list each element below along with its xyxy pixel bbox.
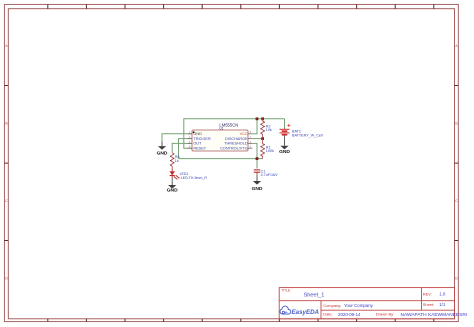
svg-text:GND: GND xyxy=(167,188,178,194)
label C1 reference and value 4.7uF/16V xyxy=(261,169,279,177)
label R6 reference and value 1k xyxy=(175,155,180,163)
wire DISCHARGE pin 7 to R2/R1 node xyxy=(252,138,262,140)
svg-text:D: D xyxy=(5,277,8,281)
zone letters left (A-D) xyxy=(5,44,8,281)
svg-text:TITLE:: TITLE: xyxy=(281,289,291,293)
capacitor C1 xyxy=(254,170,260,177)
svg-text:C: C xyxy=(5,199,8,203)
pin stubs pins 1-4 left xyxy=(188,134,192,148)
ground symbol below LED1 xyxy=(167,181,178,193)
svg-text:Your Company: Your Company xyxy=(344,303,374,308)
svg-text:TRIGGER: TRIGGER xyxy=(193,137,211,141)
wire OUT pin 3 to resistor R6 xyxy=(172,143,192,152)
pin stubs pins 5-8 right xyxy=(248,134,252,148)
svg-text:1k: 1k xyxy=(175,159,179,163)
svg-text:OUT: OUT xyxy=(193,142,202,146)
ground symbol below BAT1 xyxy=(279,141,290,156)
svg-text:4.7uF/16V: 4.7uF/16V xyxy=(261,173,279,177)
LED LED1 xyxy=(170,169,181,182)
svg-text:10k: 10k xyxy=(266,128,272,132)
svg-text:D: D xyxy=(455,277,458,281)
wire TRIGGER pin 2 to bottom net xyxy=(179,139,193,159)
svg-text:Date:: Date: xyxy=(323,312,333,317)
svg-text:EasyEDA: EasyEDA xyxy=(292,309,320,316)
svg-text:DISCHARGE: DISCHARGE xyxy=(225,137,248,141)
svg-text:LED-TH-5mm_R: LED-TH-5mm_R xyxy=(181,176,208,180)
pin names VCC DISCHARGE THRESHOLD CONTROL/VTG xyxy=(220,132,248,150)
label R2 reference and value 10k xyxy=(266,124,272,132)
resistor R6 xyxy=(171,153,174,169)
wire GND pin 1 to ground xyxy=(162,134,192,142)
svg-text:RESET: RESET xyxy=(193,146,206,150)
svg-text:GND: GND xyxy=(279,149,290,155)
pin 1 marker dot xyxy=(193,131,195,133)
frame zone ticks right edge xyxy=(455,86,459,241)
ground symbol at GND pin 1 xyxy=(157,142,168,157)
svg-text:Company:: Company: xyxy=(323,303,341,308)
svg-text:BATTERY_W_Cell: BATTERY_W_Cell xyxy=(292,134,323,138)
svg-text:2020-09-14: 2020-09-14 xyxy=(338,312,361,317)
junction at bottom net C1 tap xyxy=(256,157,259,160)
ground symbol below C1 xyxy=(252,176,263,192)
frame zone ticks top edge xyxy=(48,4,434,8)
wire RESET pin 4 to VCC top rail xyxy=(184,119,285,148)
EasyEDA logo xyxy=(280,306,319,316)
svg-text:CONTROL/VTG: CONTROL/VTG xyxy=(220,146,247,150)
wire THRESHOLD pin 6 down to bottom net xyxy=(252,143,257,158)
zone letters right (A-D) xyxy=(455,44,458,281)
battery BAT1 xyxy=(280,119,291,141)
svg-text:C: C xyxy=(455,199,458,203)
title block outline xyxy=(279,288,454,319)
svg-text:Drawn By:: Drawn By: xyxy=(376,312,394,317)
pin names GND TRIGGER OUT RESET xyxy=(193,132,211,150)
svg-text:1/1: 1/1 xyxy=(439,302,446,307)
junction on top rail at R2 xyxy=(261,117,264,120)
label LED1 reference and part name xyxy=(180,172,208,180)
svg-text:+: + xyxy=(287,122,291,129)
wire bottom net TRIGGER/THRESHOLD/C1/R1 xyxy=(179,158,263,160)
label R1 reference and value 100k xyxy=(266,145,274,153)
frame zone ticks left edge xyxy=(4,86,8,241)
svg-text:Sheet_1: Sheet_1 xyxy=(304,292,325,298)
svg-text:1.0: 1.0 xyxy=(439,292,446,297)
svg-text:GND: GND xyxy=(252,186,263,192)
svg-text:NAWAPATH KAEWMANEESRI: NAWAPATH KAEWMANEESRI xyxy=(401,312,468,318)
svg-text:GND: GND xyxy=(157,150,168,156)
svg-text:VCC: VCC xyxy=(240,132,248,136)
svg-text:GND: GND xyxy=(193,132,202,136)
wire bottom net to capacitor C1 xyxy=(256,159,258,169)
resistor R2 xyxy=(261,119,264,139)
junction at DISCHARGE R2/R1 node xyxy=(261,137,264,140)
label BAT1 reference and part name xyxy=(292,130,323,138)
svg-text:Sheet:: Sheet: xyxy=(423,302,435,307)
IC U1 LM555CN body xyxy=(192,130,248,151)
resistor R1 xyxy=(261,139,264,159)
frame zone ticks bottom edge xyxy=(48,319,434,322)
svg-text:U1: U1 xyxy=(219,127,223,131)
svg-text:THRESHOLD: THRESHOLD xyxy=(224,142,248,146)
pin numbers 1-4 and 5-8 xyxy=(189,131,252,148)
svg-text:100k: 100k xyxy=(266,149,274,153)
svg-text:REV:: REV: xyxy=(423,292,432,297)
wire VCC pin 8 to top rail xyxy=(252,119,257,134)
junction on top rail at VCC riser xyxy=(256,117,259,120)
